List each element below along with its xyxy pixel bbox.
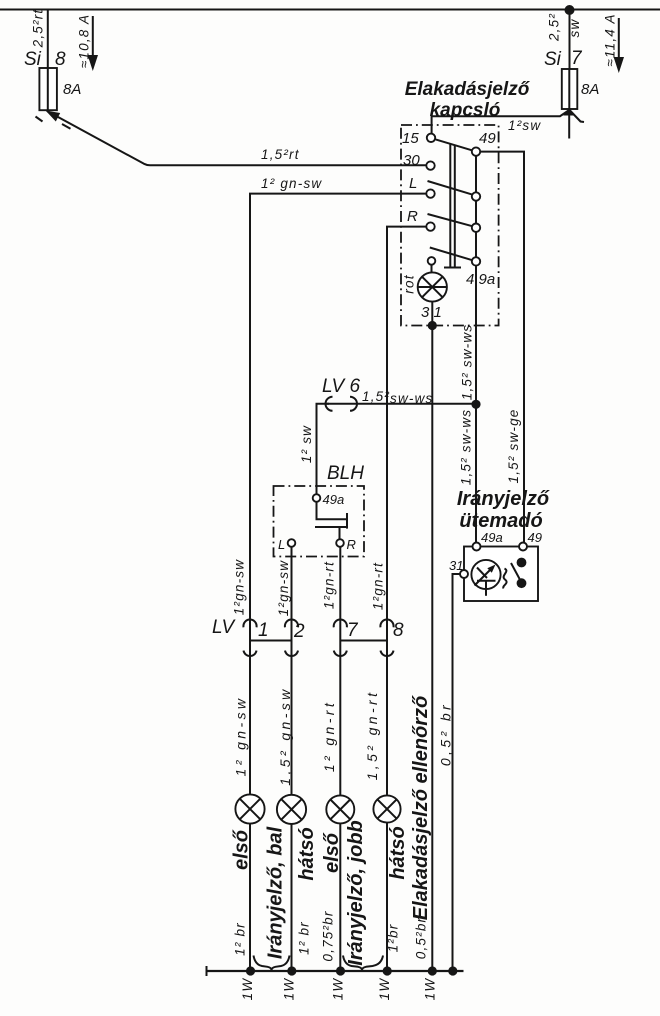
- svg-text:1: 1: [258, 620, 269, 641]
- label 1² gn-rt (wire 8 mid): [371, 562, 386, 610]
- flasher lamp symbol: [471, 560, 500, 596]
- wire pilot 31 to ground (ellenőrző): [431, 326, 433, 972]
- svg-text:2,5²: 2,5²: [547, 13, 562, 42]
- label 1² sw: [299, 425, 314, 463]
- label 1W (pilot wire): [423, 978, 438, 1001]
- svg-text:BLH: BLH: [327, 463, 364, 484]
- bridge wire LV7-LV8: [340, 640, 387, 642]
- svg-text:ütemadó: ütemadó: [459, 510, 542, 532]
- wire diagonal from fuse Si8 to 30-line: [47, 111, 427, 165]
- wire lamp 8 to ground: [386, 823, 388, 971]
- svg-text:8: 8: [393, 620, 404, 641]
- contact arm 4th (open): [430, 248, 473, 261]
- label 1,5² sw-ws (at LV6): [362, 389, 434, 406]
- svg-text:1²gn-rt: 1²gn-rt: [371, 562, 386, 610]
- terminal 49a (flasher): [473, 530, 503, 551]
- svg-text:7: 7: [571, 48, 583, 69]
- label 1,5² sw-ws (lower): [459, 409, 474, 486]
- label 1² br (wire 1): [233, 922, 248, 956]
- label 1² gn-sw (wire 2 mid): [276, 560, 291, 616]
- switch right column link wire: [475, 156, 477, 257]
- svg-text:sw: sw: [567, 19, 582, 38]
- lamp rear left: [277, 795, 306, 824]
- wire lamp 7 to ground: [339, 823, 341, 971]
- lamp front left: [235, 794, 264, 823]
- svg-text:hátsó: hátsó: [387, 826, 409, 879]
- switch column circle 49a: [472, 257, 480, 265]
- wire flasher 31 to ground: [453, 574, 461, 971]
- svg-text:1W: 1W: [423, 978, 438, 1001]
- svg-text:Elakadásjelző ellenőrző: Elakadásjelző ellenőrző: [410, 695, 432, 920]
- label 0,5² br (flasher wire): [438, 702, 454, 766]
- svg-text:1² br: 1² br: [297, 921, 312, 955]
- label első (lamp 1): [231, 829, 253, 870]
- svg-text:Irányjelző, bal: Irányjelző, bal: [265, 826, 287, 959]
- flasher contact: [511, 558, 526, 589]
- svg-text:≈10,8 A: ≈10,8 A: [77, 14, 92, 68]
- wire 49a down to flasher (with junction): [475, 266, 477, 543]
- label 2,5² rt: [31, 9, 46, 49]
- label 49 (top): [479, 130, 496, 147]
- pilot lamp terminal: [428, 257, 436, 265]
- switch column circle L-49a: [472, 192, 480, 200]
- lamp front right: [326, 795, 354, 823]
- svg-text:rot: rot: [402, 274, 417, 293]
- svg-text:8: 8: [55, 49, 66, 70]
- svg-text:1²gn-sw: 1²gn-sw: [276, 560, 291, 616]
- label 1,5² gn-sw (lamp 2): [277, 686, 293, 785]
- ground node pilot: [428, 966, 437, 975]
- svg-text:1²br: 1²br: [386, 924, 401, 953]
- label Elakadásjelző ellenőrző: [410, 695, 432, 920]
- terminal 49: [472, 147, 480, 155]
- switch column circle R: [472, 224, 480, 232]
- svg-text:30: 30: [403, 152, 420, 169]
- label 1W (wire 2): [282, 978, 297, 1001]
- svg-text:1² gn-sw: 1² gn-sw: [261, 176, 322, 191]
- label 1² gn-sw (lamp 1): [233, 696, 249, 777]
- svg-text:Si: Si: [24, 49, 42, 70]
- connector LV1: [243, 620, 268, 657]
- wire L to connector 1: [250, 194, 426, 795]
- switch actuator bar: [444, 144, 461, 268]
- contact arm L (open): [428, 181, 473, 195]
- label ≈10,8 A: [77, 14, 92, 68]
- svg-text:2,5²rt: 2,5²rt: [31, 9, 46, 49]
- svg-text:1² gn-sw: 1² gn-sw: [233, 696, 249, 777]
- svg-text:Irányjelző: Irányjelző: [457, 488, 550, 510]
- svg-text:1²gn-sw: 1²gn-sw: [232, 559, 247, 615]
- svg-text:Si: Si: [544, 49, 562, 70]
- brace right pair: [343, 956, 383, 971]
- junction node 31 on enclosure edge: [428, 321, 437, 330]
- connector LV8: [380, 620, 404, 657]
- label 49a (switch): [466, 271, 495, 288]
- svg-text:Elakadásjelző: Elakadásjelző: [405, 79, 531, 100]
- svg-text:1,5² sw-ws: 1,5² sw-ws: [460, 324, 475, 401]
- wire LV6 to junction: [358, 403, 477, 405]
- terminal R (BLH): [336, 537, 356, 552]
- svg-text:1: 1: [434, 304, 442, 321]
- terminal L: [409, 175, 435, 198]
- svg-text:7: 7: [347, 620, 359, 641]
- svg-text:1W: 1W: [377, 978, 392, 1001]
- svg-text:1,5²rt: 1,5²rt: [261, 147, 300, 162]
- label Irányjelző, jobb: [345, 820, 367, 966]
- terminal 15: [402, 130, 435, 147]
- svg-text:L: L: [278, 537, 285, 552]
- svg-text:49a: 49a: [481, 530, 503, 545]
- svg-text:9a: 9a: [479, 271, 496, 288]
- title Irányjelző ütemadó: [457, 488, 550, 532]
- label LV 6: [322, 376, 360, 397]
- label 1W (wire 8): [377, 978, 392, 1001]
- svg-text:8A: 8A: [63, 81, 81, 98]
- label 31 (switch): [421, 304, 442, 321]
- wire lamp 1 to ground: [249, 824, 251, 971]
- terminal R: [407, 208, 435, 231]
- contact arm 15-49 (closed): [435, 139, 473, 150]
- svg-text:1,5²: 1,5²: [362, 389, 390, 404]
- svg-text:1,5² gn-rt: 1,5² gn-rt: [364, 690, 380, 781]
- label BLH: [327, 463, 364, 484]
- svg-text:R: R: [347, 537, 356, 552]
- label hátsó (lamp 8): [387, 826, 409, 879]
- svg-text:8A: 8A: [581, 81, 599, 98]
- wire BLH L to connector 2: [291, 547, 293, 795]
- svg-text:1,5² sw-ws: 1,5² sw-ws: [459, 409, 474, 486]
- junction node top bus to Si7: [565, 5, 575, 15]
- svg-text:LV: LV: [212, 617, 237, 638]
- label 1² br (wire 8): [386, 924, 401, 953]
- wire top supply bus: [0, 9, 660, 11]
- connector LV7: [334, 620, 359, 657]
- label 1,5² gn-rt (lamp 8): [364, 690, 380, 781]
- svg-text:≈11,4 A: ≈11,4 A: [603, 13, 618, 66]
- wire BLH R to connector 7: [339, 547, 341, 796]
- current arrow 10,8 A: [88, 16, 98, 71]
- svg-text:49: 49: [528, 530, 542, 545]
- ground node 8: [383, 966, 392, 975]
- label 1² gn-rt (wire 7 mid): [322, 561, 337, 609]
- label 1² gn-rt (lamp 7): [321, 700, 337, 772]
- label sw: [567, 19, 582, 38]
- contact arm R (open): [428, 214, 473, 226]
- svg-text:hátsó: hátsó: [296, 827, 318, 880]
- svg-text:49a: 49a: [323, 492, 345, 507]
- hazard switch enclosure (dash-dot): [401, 125, 499, 326]
- svg-text:R: R: [407, 208, 418, 225]
- label 0,75² br (wire 7): [321, 910, 336, 961]
- svg-text:1² br: 1² br: [233, 922, 248, 956]
- terminal 30: [403, 152, 435, 170]
- label Irányjelző, bal: [265, 826, 287, 959]
- label 1² sw: [508, 118, 541, 133]
- svg-text:1² gn-rt: 1² gn-rt: [321, 700, 337, 772]
- label 1,5² sw-ge: [506, 408, 521, 483]
- label 8A: [581, 81, 599, 98]
- svg-text:49: 49: [479, 130, 496, 147]
- wire fuse Si8 feed, 2,5 sq rt: [47, 10, 49, 69]
- ground bus: [207, 966, 464, 976]
- label hátsó (lamp 2): [296, 827, 318, 880]
- svg-text:0,5²br: 0,5²br: [414, 917, 429, 959]
- fuse Si8: [39, 68, 57, 110]
- wire 49 to right column: [480, 152, 524, 543]
- svg-text:sw-ws: sw-ws: [390, 391, 434, 406]
- svg-text:0,75²br: 0,75²br: [321, 910, 336, 961]
- relay coil element: [315, 502, 347, 540]
- svg-text:L: L: [409, 175, 417, 192]
- label rot: [402, 274, 417, 293]
- label 1W (wire 1): [240, 978, 255, 1001]
- svg-text:1²gn-rt: 1²gn-rt: [322, 561, 337, 609]
- svg-text:1²sw: 1²sw: [508, 118, 541, 133]
- svg-text:2: 2: [293, 621, 305, 642]
- ground node 1: [246, 966, 255, 975]
- connector LV6: [326, 397, 358, 411]
- arrowhead and stubs at Si7 bottom: [563, 108, 584, 139]
- label 1,5² rt: [261, 147, 300, 162]
- wire lamp 2 to ground: [291, 824, 293, 971]
- ground node 7: [336, 966, 345, 975]
- bridge wire LV1-LV2: [250, 640, 292, 642]
- title Elakadásjelző kapcsló: [405, 79, 531, 121]
- svg-text:Irányjelző, jobb: Irányjelző, jobb: [345, 820, 367, 966]
- lamp rear right: [373, 795, 400, 822]
- label első (lamp 7): [321, 832, 343, 873]
- label ≈11,4 A: [603, 13, 618, 66]
- label 1W (wire 7): [331, 978, 346, 1001]
- terminal 49 (flasher): [519, 530, 542, 551]
- brace left pair: [254, 956, 290, 971]
- svg-text:3: 3: [421, 304, 430, 321]
- svg-text:4: 4: [466, 271, 474, 288]
- connector LV2: [285, 620, 305, 657]
- label 1² gn-sw (horizontal): [261, 176, 322, 191]
- svg-text:31: 31: [449, 558, 463, 573]
- svg-text:LV 6: LV 6: [322, 376, 360, 397]
- svg-text:első: első: [231, 829, 253, 870]
- flasher thermal squiggle: [503, 569, 506, 589]
- label 1² gn-sw (wire 1 mid): [232, 559, 247, 615]
- svg-text:0,5² br: 0,5² br: [438, 702, 454, 766]
- flasher enclosure: [464, 547, 538, 602]
- junction node LV6 branch: [471, 400, 480, 409]
- svg-text:1W: 1W: [240, 978, 255, 1001]
- fuse Si7: [562, 69, 578, 109]
- wire 1² sw LV6 to BLH: [317, 404, 330, 495]
- ground node flasher: [448, 966, 457, 975]
- terminal 49a (BLH): [313, 492, 345, 507]
- label Si 8: [24, 49, 66, 70]
- terminal L (BLH): [278, 537, 295, 552]
- svg-text:kapcsló: kapcsló: [430, 100, 501, 121]
- svg-text:1W: 1W: [282, 978, 297, 1001]
- relay BLH enclosure (dash-dot): [274, 486, 365, 557]
- label 2,5²: [547, 13, 562, 42]
- label Si 7: [544, 48, 583, 70]
- wire fuse Si7 feed: [569, 10, 571, 69]
- label 0,5² br (bottom): [414, 917, 429, 959]
- current arrow 11,4 A: [614, 18, 624, 73]
- label 1,5² sw-ws (upper): [460, 324, 475, 401]
- label 1² br (wire 2): [297, 921, 312, 955]
- svg-text:1² sw: 1² sw: [299, 425, 314, 463]
- label 8A: [63, 81, 81, 98]
- svg-text:1,5² gn-sw: 1,5² gn-sw: [277, 686, 293, 785]
- svg-text:1,5² sw-ge: 1,5² sw-ge: [506, 408, 521, 483]
- svg-text:15: 15: [402, 130, 419, 147]
- arrowhead at Si8 bottom: [36, 111, 71, 129]
- svg-text:első: első: [321, 832, 343, 873]
- terminal 31 (flasher): [449, 558, 468, 578]
- ground node 2: [287, 966, 296, 975]
- svg-text:1W: 1W: [331, 978, 346, 1001]
- wire R to connector 8: [387, 227, 426, 795]
- pilot lamp rot: [418, 265, 447, 322]
- label LV (connector row): [212, 617, 237, 638]
- wire 1² sw from Si7 to switch terminal 15: [432, 111, 569, 134]
